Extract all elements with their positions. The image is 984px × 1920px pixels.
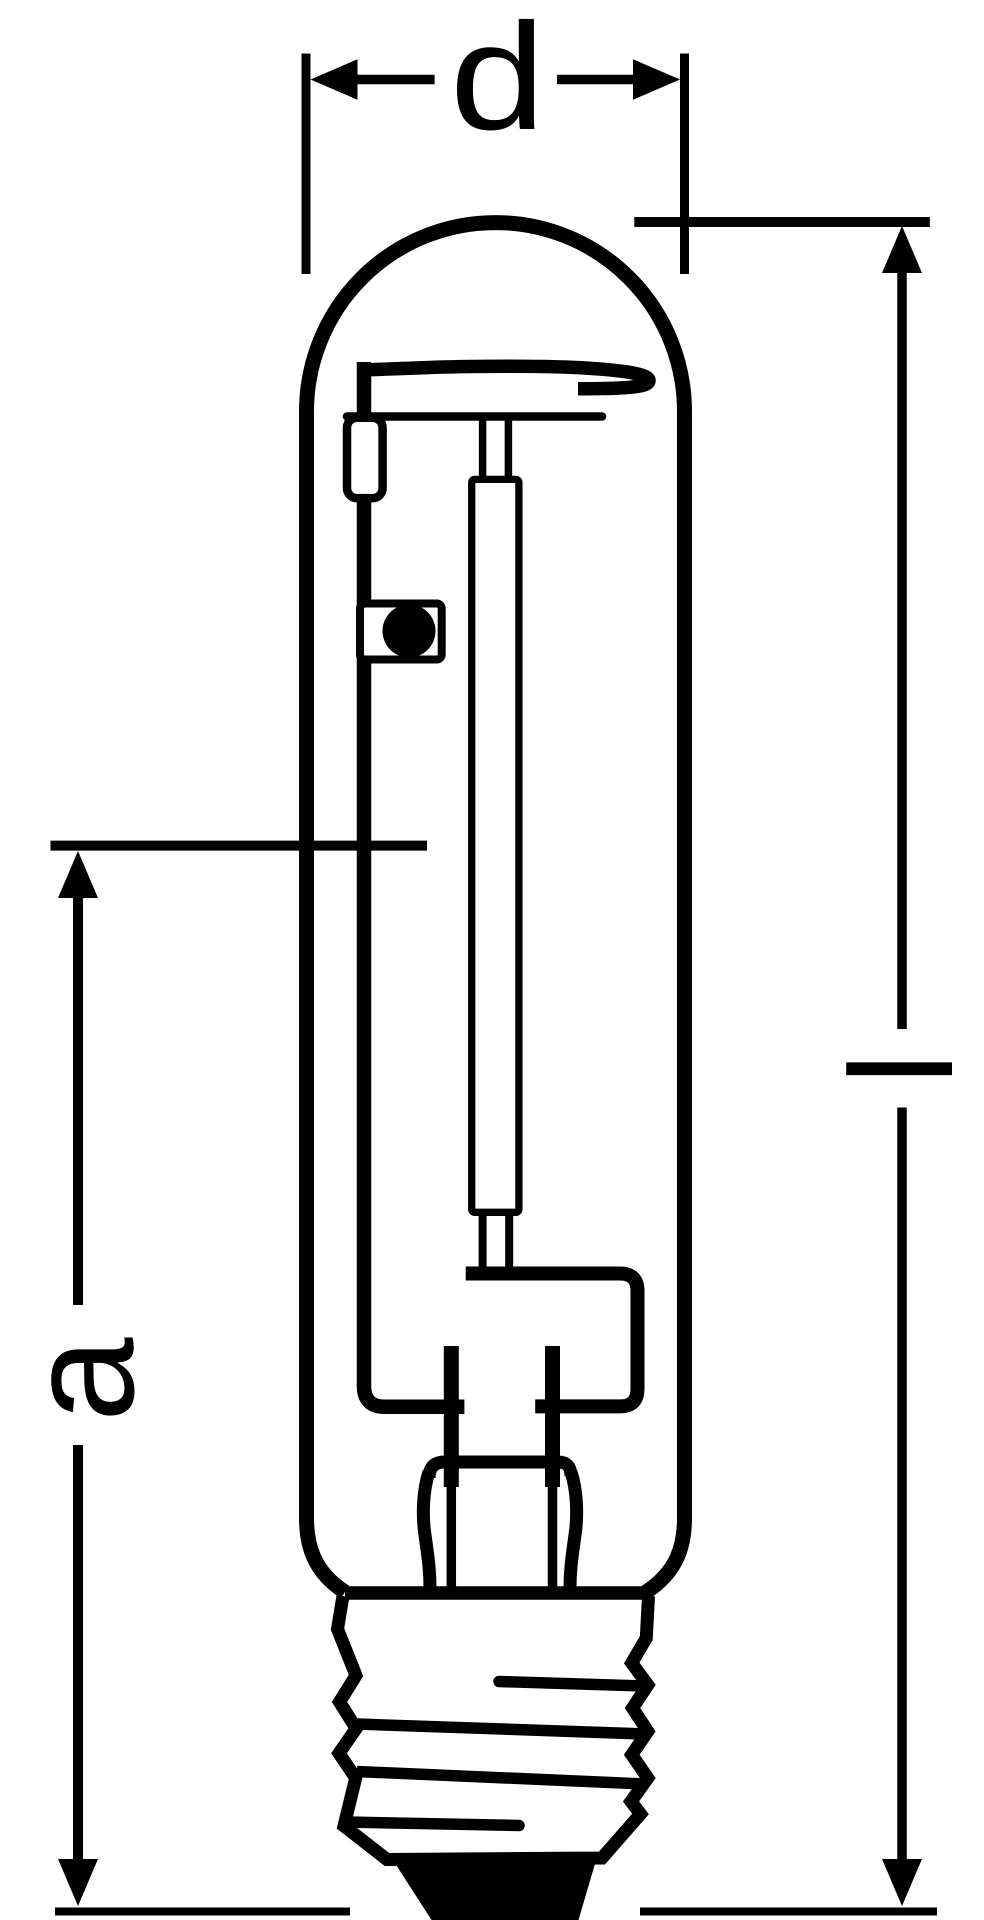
arc tube bottom neck right wall — [505, 1212, 513, 1267]
left lead wire (thick upper part) — [444, 1346, 459, 1487]
dimension d: right extension line — [680, 54, 689, 275]
stem flare right wall — [570, 1472, 577, 1587]
dimension l: bottom reference line — [640, 1908, 937, 1916]
dimension l: top reference line — [634, 217, 930, 227]
dimension l: vertical line upper segment — [897, 240, 907, 1029]
exhaust tube top neck left wall — [479, 413, 487, 478]
dimension d: left extension line — [302, 54, 311, 275]
exhaust tube top neck right wall — [505, 413, 513, 478]
getter holder rect (white) — [360, 604, 442, 660]
stem flare top line — [429, 1462, 571, 1478]
dimension d: arrow line right segment — [557, 75, 638, 85]
thread line D (lower partial) — [346, 1822, 519, 1826]
bulb wall right — [646, 411, 685, 1592]
dimension d: arrow line left segment — [352, 75, 435, 85]
getter dot (black circle) — [383, 605, 436, 658]
svg-text:d: d — [450, 0, 546, 162]
dimension l: vertical line lower segment — [897, 1108, 907, 1896]
right lead wire (thin lower part) — [548, 1487, 558, 1589]
dimension a: top reference line — [51, 841, 428, 851]
dimension l: top arrowhead — [882, 226, 922, 273]
getter hook (flattened loop at top) — [364, 366, 649, 389]
bulb wall left — [307, 411, 346, 1592]
svg-text:l: l — [820, 1053, 983, 1085]
screw shell outline — [338, 1596, 649, 1860]
base insulator and contact (black trapezoid) — [391, 1857, 597, 1920]
right lead wire (thick upper part) — [545, 1346, 560, 1487]
base top line — [345, 1586, 651, 1600]
thread line B (full width) — [357, 1724, 645, 1734]
thread line C (full width) — [357, 1772, 645, 1785]
support rod horizontal line — [347, 412, 602, 421]
dimension d: left arrowhead — [311, 59, 358, 100]
dimension a: vertical line upper segment — [73, 865, 83, 1305]
dimension a: top arrowhead — [58, 851, 98, 898]
thread line A (upper partial) — [499, 1682, 644, 1687]
mount support loop (right of arc tube bottom) — [466, 1274, 638, 1407]
arc tube body — [472, 479, 519, 1212]
dimension d: right arrowhead — [633, 59, 680, 100]
bulb dome — [307, 223, 685, 412]
arc tube bottom neck left wall — [479, 1212, 487, 1267]
left lead wire (thin lower part) — [447, 1487, 457, 1589]
svg-text:a: a — [0, 1337, 166, 1422]
frame wire (long support, left inside bulb) — [364, 362, 464, 1407]
dimension l: bottom arrowhead — [882, 1859, 922, 1906]
support clamp (white rounded rect) — [347, 418, 383, 498]
dimension a: bottom reference line — [55, 1908, 350, 1916]
dimension a: vertical line lower segment — [73, 1445, 83, 1895]
dimension a: bottom arrowhead — [58, 1859, 98, 1906]
stem flare left wall — [423, 1472, 430, 1587]
